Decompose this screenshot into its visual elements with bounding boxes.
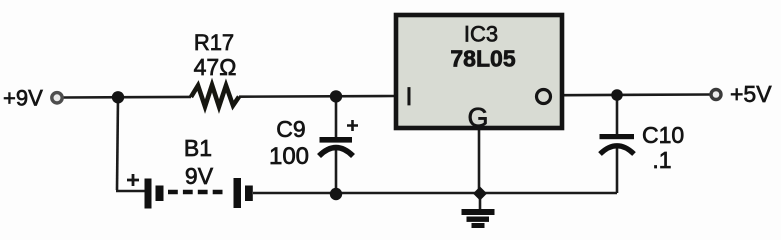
- svg-text:100: 100: [269, 143, 309, 170]
- svg-text:IC3: IC3: [464, 22, 498, 47]
- svg-text:+5V: +5V: [730, 81, 772, 107]
- svg-text:47Ω: 47Ω: [194, 54, 237, 80]
- svg-text:I: I: [406, 83, 413, 111]
- svg-text:9V: 9V: [185, 163, 214, 189]
- svg-text:C10: C10: [642, 122, 684, 148]
- svg-text:C9: C9: [276, 116, 305, 142]
- svg-text:G: G: [467, 103, 488, 133]
- svg-text:+9V: +9V: [3, 86, 43, 111]
- svg-text:78L05: 78L05: [450, 46, 515, 72]
- svg-text:B1: B1: [184, 135, 212, 161]
- svg-text:R17: R17: [194, 30, 234, 55]
- svg-text:.1: .1: [652, 147, 671, 173]
